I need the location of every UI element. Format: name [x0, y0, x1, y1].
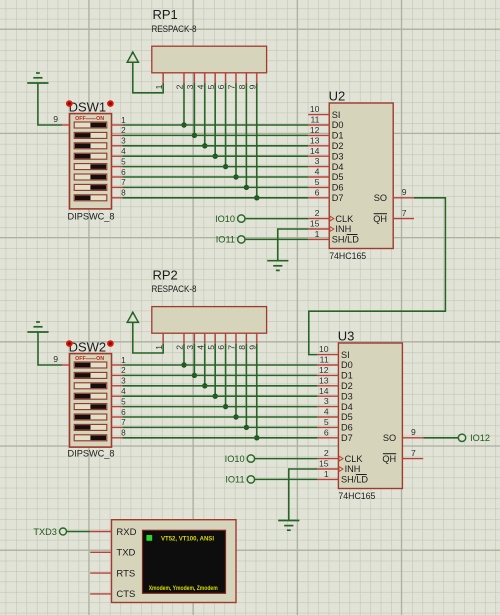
U2 pin 7 (QH)	[373, 208, 414, 224]
junction RP2 pin 5 / row 4	[213, 394, 218, 399]
terminal IO12 (from U3 SO)	[458, 433, 490, 443]
svg-text:15: 15	[310, 219, 320, 229]
ground at DSW2 common	[27, 322, 48, 332]
svg-text:8: 8	[237, 345, 247, 350]
DSW1 pin 5 stub	[112, 157, 127, 166]
svg-text:5: 5	[315, 177, 320, 187]
virtual terminal pin TXD	[90, 548, 135, 559]
svg-text:14: 14	[310, 146, 320, 156]
junction RP2 pin 2 / row 1	[181, 362, 186, 367]
U3 pin 11 (D0)	[317, 355, 352, 371]
svg-text:13: 13	[319, 375, 329, 385]
svg-text:RP2: RP2	[153, 267, 178, 282]
U2 pin 5 (D6)	[308, 177, 343, 193]
wire DSW1 pin 7 to U2 D6	[122, 186, 308, 188]
svg-text:QH: QH	[373, 214, 387, 224]
svg-text:8: 8	[121, 189, 126, 198]
wire RP1 pin 7 down to bus row 6	[235, 83, 237, 177]
U2 pin 1 (SH/LD)	[308, 229, 359, 245]
svg-text:IO11: IO11	[225, 475, 244, 485]
svg-text:9: 9	[53, 354, 58, 364]
wire U3 INH to ground	[289, 469, 318, 521]
U2 value label 74HC165	[329, 251, 366, 261]
svg-text:4: 4	[195, 84, 205, 89]
svg-text:1: 1	[121, 356, 126, 365]
U2 pin 14 (D3)	[308, 146, 343, 162]
svg-text:7: 7	[121, 418, 126, 427]
U2 pin 6 (D7)	[308, 187, 343, 203]
DSW1 value label DIPSWC_8	[68, 211, 115, 221]
svg-text:QH: QH	[382, 454, 396, 464]
svg-text:RTS: RTS	[116, 568, 135, 579]
DSW2 pin 5 stub	[112, 397, 127, 406]
svg-text:IO10: IO10	[225, 454, 245, 464]
RP2 pin 3 number	[185, 345, 195, 350]
svg-text:VT52, VT100, ANSI: VT52, VT100, ANSI	[161, 535, 214, 542]
svg-text:RXD: RXD	[116, 527, 136, 538]
DSW2 pin 7 stub	[112, 418, 127, 427]
svg-text:3: 3	[185, 84, 195, 89]
RP1 pin 3 number	[185, 84, 195, 89]
svg-text:7: 7	[121, 178, 126, 187]
junction RP2 pin 8 / row 7	[244, 425, 249, 430]
DSW2 switch 2 (OFF)	[74, 372, 107, 378]
svg-text:6: 6	[216, 84, 226, 89]
svg-text:4: 4	[195, 345, 205, 350]
svg-text:74HC165: 74HC165	[338, 491, 375, 501]
svg-text:2: 2	[315, 208, 320, 218]
wire RP2 pin 1 to power terminal	[133, 322, 163, 353]
virtual terminal pin RTS	[90, 568, 135, 579]
terminal screen text VT52, VT100, ANSI	[161, 535, 214, 542]
RP2 pin 5 number	[206, 345, 216, 350]
svg-text:1: 1	[154, 84, 164, 89]
svg-text:1: 1	[324, 469, 329, 479]
DSW2 value label DIPSWC_8	[68, 449, 115, 459]
svg-text:IO10: IO10	[215, 214, 235, 224]
U2 pin 10 (SI)	[308, 104, 340, 120]
ground below U3	[278, 521, 299, 531]
wire DSW1 pin 4 to U2 D3	[122, 155, 308, 157]
svg-text:7: 7	[227, 345, 237, 350]
U3 pin 2 (CLK)	[317, 448, 363, 464]
svg-text:2: 2	[121, 126, 126, 135]
DSW1 pin 3 stub	[112, 137, 127, 146]
wire U2 SO to U3 SI	[309, 198, 446, 355]
RP1 pin 8 number	[237, 84, 247, 89]
svg-text:D4: D4	[341, 402, 353, 412]
svg-text:DSW2: DSW2	[69, 339, 107, 354]
terminal screen text Xmodem, Ymodem, Zmodem	[149, 585, 218, 592]
DSW1 origin marker right	[107, 100, 114, 107]
RP1 pin 2 number	[175, 84, 185, 89]
U2 reference label	[329, 89, 346, 104]
svg-text:D5: D5	[341, 412, 353, 422]
svg-text:DIPSWC_8: DIPSWC_8	[68, 211, 115, 221]
svg-text:6: 6	[324, 427, 329, 437]
svg-text:D1: D1	[341, 371, 353, 381]
svg-text:1: 1	[154, 345, 164, 350]
svg-text:14: 14	[319, 386, 329, 396]
svg-text:D5: D5	[332, 172, 344, 182]
wire U3 SO to IO12	[423, 437, 458, 439]
svg-text:RP1: RP1	[153, 7, 178, 22]
svg-text:4: 4	[315, 167, 320, 177]
svg-text:SH/LD: SH/LD	[332, 235, 359, 245]
wire DSW2 pin 7 to U3 D6	[122, 426, 317, 428]
wire RP1 pin 3 down to bus row 2	[193, 83, 195, 135]
U2 pin 4 (D5)	[308, 167, 343, 183]
wire RP2 pin 9 down to bus row 8	[256, 344, 258, 438]
U2 pin 15 (INH)	[308, 219, 351, 235]
wire DSW2 pin 4 to U3 D3	[122, 395, 317, 397]
DSW2 switch 8 (ON)	[74, 435, 107, 441]
svg-text:5: 5	[206, 84, 216, 89]
wire RP1 pin 1 to power terminal	[133, 62, 163, 93]
svg-text:OFF: OFF	[75, 356, 86, 362]
DSW2 switch 7 (OFF)	[74, 424, 107, 430]
svg-text:D3: D3	[341, 391, 353, 401]
svg-text:2: 2	[121, 366, 126, 375]
RP2 pin 7 number	[227, 345, 237, 350]
wire DSW2 pin 5 to U3 D4	[122, 406, 317, 408]
wire DSW2 pin 3 to U3 D2	[122, 385, 317, 387]
wire RP2 pin 3 down to bus row 2	[193, 344, 195, 376]
U3 pin 9 (SO)	[383, 427, 423, 443]
svg-text:D2: D2	[332, 141, 344, 151]
DIP switch DSW1 (DIPSWC_8)	[70, 114, 112, 209]
svg-text:D6: D6	[341, 423, 353, 433]
U3 value label 74HC165	[338, 491, 375, 501]
U3 pin 12 (D1)	[317, 365, 352, 381]
svg-text:1: 1	[315, 229, 320, 239]
svg-text:1: 1	[121, 116, 126, 125]
DSW2 pin 2 stub	[112, 366, 127, 375]
svg-text:9: 9	[411, 427, 416, 437]
svg-text:12: 12	[319, 365, 329, 375]
wire RP2 pin 6 down to bus row 5	[225, 344, 227, 407]
U3 pin 7 (QH)	[382, 448, 423, 464]
wire IO10 to U2 CLK	[245, 218, 308, 220]
svg-text:DSW1: DSW1	[69, 99, 107, 114]
DSW1 pin 7 stub	[112, 178, 127, 187]
svg-text:SI: SI	[332, 110, 341, 120]
RP1 pin 9 number	[247, 84, 257, 89]
svg-text:9: 9	[247, 345, 257, 350]
RP2 pin 9 number	[247, 345, 257, 350]
wire U2 INH to ground	[278, 229, 308, 261]
svg-text:9: 9	[402, 187, 407, 197]
virtual terminal body	[112, 520, 237, 603]
resistor pack RP2 (RESPACK-8)	[152, 307, 267, 344]
U2 pin 2 (CLK)	[308, 208, 354, 224]
wire RP2 pin 8 down to bus row 7	[245, 344, 247, 428]
ground at DSW1 common	[27, 73, 48, 83]
DSW2 origin marker left	[66, 340, 73, 347]
svg-text:IO12: IO12	[470, 433, 490, 443]
svg-text:RESPACK-8: RESPACK-8	[152, 284, 197, 294]
wire DSW1 pin 8 to U2 D7	[122, 197, 308, 199]
svg-text:3: 3	[121, 137, 126, 146]
DSW1 pin 1 stub	[112, 116, 127, 125]
svg-text:15: 15	[319, 459, 329, 469]
U2 pin 3 (D4)	[308, 156, 343, 172]
svg-text:TXD3: TXD3	[33, 527, 57, 537]
svg-text:CTS: CTS	[116, 589, 135, 600]
U3 pin 3 (D4)	[317, 396, 352, 412]
DSW2 pin 9 stub (common)	[53, 354, 69, 365]
junction RP1 pin 3 / row 2	[192, 133, 197, 138]
svg-text:D6: D6	[332, 183, 344, 193]
svg-text:9: 9	[247, 84, 257, 89]
U3 pin 6 (D7)	[317, 427, 352, 443]
svg-text:3: 3	[324, 396, 329, 406]
svg-text:3: 3	[185, 345, 195, 350]
svg-text:DIPSWC_8: DIPSWC_8	[68, 449, 115, 459]
wire IO11 to U3 SH/LD	[255, 478, 318, 480]
DSW1 switch 7 (ON)	[74, 184, 107, 190]
U2 pin 11 (D0)	[308, 115, 343, 131]
svg-text:3: 3	[121, 377, 126, 386]
svg-text:Xmodem, Ymodem, Zmodem: Xmodem, Ymodem, Zmodem	[149, 585, 218, 592]
svg-text:11: 11	[310, 115, 319, 125]
svg-text:5: 5	[121, 157, 126, 166]
wire RP2 pin 4 down to bus row 3	[204, 344, 206, 386]
power terminal VCC for RP2	[127, 312, 138, 322]
RP1 pin 1 number	[154, 84, 164, 89]
DIP switch DSW2 (DIPSWC_8)	[70, 354, 112, 448]
junction RP2 pin 3 / row 2	[192, 373, 197, 378]
DSW2 pin 4 stub	[112, 387, 127, 396]
RP1 value label RESPACK-8	[152, 24, 197, 34]
DSW2 reference label	[69, 339, 107, 354]
svg-text:D2: D2	[341, 381, 353, 391]
svg-text:7: 7	[411, 448, 416, 458]
svg-text:ON: ON	[96, 116, 104, 122]
svg-text:OFF: OFF	[75, 116, 86, 122]
RP1 pin 7 number	[227, 84, 237, 89]
DSW1 pin 2 stub	[112, 126, 127, 135]
wire DSW1 pin 2 to U2 D1	[122, 134, 308, 136]
DSW1 switch 6 (ON)	[74, 174, 107, 180]
virtual terminal pin CTS	[90, 589, 135, 600]
svg-text:5: 5	[121, 397, 126, 406]
wire DSW2 pin 6 to U3 D5	[122, 416, 317, 418]
svg-text:8: 8	[121, 429, 126, 438]
RP1 pin 4 number	[195, 84, 205, 89]
U3 pin 10 (SI)	[317, 344, 349, 360]
wire DSW1 pin 6 to U2 D5	[122, 176, 308, 178]
svg-text:CLK: CLK	[335, 214, 354, 224]
DSW1 switch 2 (OFF)	[74, 132, 107, 138]
terminal IO11 (to U3 SH/LD)	[225, 475, 254, 485]
DSW1 switch 1 (ON)	[74, 122, 107, 128]
DSW1 pin 6 stub	[112, 168, 127, 177]
svg-text:D0: D0	[332, 120, 344, 130]
svg-text:5: 5	[206, 345, 216, 350]
DSW1 switch 3 (OFF)	[74, 143, 107, 149]
wire IO11 to U2 SH/LD	[245, 238, 308, 240]
RP2 reference label	[153, 267, 178, 282]
svg-text:D3: D3	[332, 151, 344, 161]
DSW2 origin marker right	[107, 340, 114, 347]
U3 pin 14 (D3)	[317, 386, 352, 402]
IC U3 74HC165 body	[338, 343, 402, 489]
svg-text:4: 4	[121, 387, 126, 396]
DSW1 switch 4 (OFF)	[74, 153, 107, 159]
wire DSW1 pin 3 to U2 D2	[122, 145, 308, 147]
U3 pin 1 (SH/LD)	[317, 469, 368, 485]
junction RP1 pin 2 / row 1	[181, 122, 186, 127]
svg-text:6: 6	[121, 168, 126, 177]
terminal status indicator	[146, 535, 152, 541]
junction RP2 pin 6 / row 5	[223, 404, 228, 409]
svg-text:D7: D7	[341, 433, 353, 443]
svg-text:ON: ON	[96, 356, 104, 362]
U2 pin 13 (D2)	[308, 135, 343, 151]
svg-text:2: 2	[175, 84, 185, 89]
RP1 pin 6 number	[216, 84, 226, 89]
RP2 pin 8 number	[237, 345, 247, 350]
wire DSW2 pin 1 to U3 D0	[122, 364, 317, 366]
ground below U2	[267, 261, 288, 271]
RP2 value label RESPACK-8	[152, 284, 197, 294]
svg-text:2: 2	[175, 345, 185, 350]
wire IO10 to U3 CLK	[255, 458, 318, 460]
wire DSW2 pin 8 to U3 D7	[122, 437, 317, 439]
DSW2 pin 6 stub	[112, 408, 127, 417]
wire RP1 pin 2 down to bus row 1	[183, 83, 185, 125]
svg-text:11: 11	[320, 355, 329, 365]
svg-text:4: 4	[324, 407, 329, 417]
svg-text:D0: D0	[341, 360, 353, 370]
svg-text:5: 5	[324, 417, 329, 427]
virtual terminal screen	[143, 530, 226, 593]
svg-text:6: 6	[216, 345, 226, 350]
svg-text:10: 10	[310, 104, 320, 114]
wire DSW1 pin 5 to U2 D4	[122, 166, 308, 168]
U2 pin 9 (SO)	[374, 187, 414, 203]
svg-text:SI: SI	[341, 350, 350, 360]
junction RP2 pin 4 / row 3	[202, 383, 207, 388]
svg-text:6: 6	[121, 408, 126, 417]
DSW1 switch 8 (OFF)	[74, 195, 107, 201]
svg-text:3: 3	[315, 156, 320, 166]
svg-text:7: 7	[227, 84, 237, 89]
wire RP1 pin 8 down to bus row 7	[245, 83, 247, 187]
RP2 pin 4 number	[195, 345, 205, 350]
svg-text:RESPACK-8: RESPACK-8	[152, 24, 197, 34]
wire TXD3 to terminal RXD	[67, 531, 91, 533]
terminal IO10 (to U2 CLK)	[215, 214, 245, 224]
wire DSW1 pin 1 to U2 D0	[122, 124, 308, 126]
DSW2 pin 1 stub	[112, 356, 127, 365]
U3 pin 5 (D6)	[317, 417, 352, 433]
DSW2 pin 8 stub	[112, 429, 127, 438]
svg-text:D4: D4	[332, 162, 344, 172]
wire RP1 pin 6 down to bus row 5	[225, 83, 227, 166]
svg-text:U2: U2	[329, 89, 346, 104]
svg-text:IO11: IO11	[216, 235, 235, 245]
DSW1 origin marker left	[66, 100, 73, 107]
svg-text:12: 12	[310, 125, 320, 135]
svg-text:INH: INH	[335, 224, 351, 234]
svg-text:2: 2	[324, 448, 329, 458]
svg-text:SO: SO	[383, 433, 396, 443]
resistor pack RP1 (RESPACK-8)	[152, 46, 267, 83]
DSW1 pin 9 stub (common)	[53, 114, 69, 125]
DSW2 switch 3 (ON)	[74, 383, 107, 389]
RP2 pin 2 number	[175, 345, 185, 350]
wire RP1 pin 9 down to bus row 8	[256, 83, 258, 198]
DSW2 switch 1 (OFF)	[74, 362, 107, 368]
DSW2 pin 3 stub	[112, 377, 127, 386]
svg-text:74HC165: 74HC165	[329, 251, 366, 261]
virtual terminal pin RXD	[90, 527, 136, 538]
terminal IO10 (to U3 CLK)	[225, 454, 255, 464]
junction RP1 pin 9 / row 8	[254, 195, 259, 200]
svg-text:SH/LD: SH/LD	[341, 475, 368, 485]
wire ground to DSW1 pin 9	[38, 83, 62, 125]
U3 pin 15 (INH)	[317, 459, 360, 475]
RP1 reference label	[153, 7, 178, 22]
U3 pin 4 (D5)	[317, 407, 352, 423]
DSW1 switch 5 (ON)	[74, 164, 107, 170]
svg-text:10: 10	[319, 344, 329, 354]
svg-text:13: 13	[310, 135, 320, 145]
svg-text:U3: U3	[338, 329, 355, 344]
junction RP1 pin 7 / row 6	[233, 174, 238, 179]
svg-text:INH: INH	[345, 464, 361, 474]
IC U2 74HC165 body	[329, 103, 393, 249]
junction RP2 pin 7 / row 6	[233, 414, 238, 419]
RP2 pin 1 number	[154, 345, 164, 350]
DSW2 switch 5 (ON)	[74, 404, 107, 410]
wire RP2 pin 5 down to bus row 4	[214, 344, 216, 396]
svg-text:CLK: CLK	[345, 454, 364, 464]
svg-text:D7: D7	[332, 193, 344, 203]
wire RP1 pin 5 down to bus row 4	[214, 83, 216, 156]
wire DSW2 pin 2 to U3 D1	[122, 374, 317, 376]
svg-text:SO: SO	[374, 193, 387, 203]
junction RP2 pin 9 / row 8	[254, 435, 259, 440]
junction RP1 pin 4 / row 3	[202, 143, 207, 148]
U2 pin 12 (D1)	[308, 125, 343, 141]
svg-text:D1: D1	[332, 131, 344, 141]
wire RP1 pin 4 down to bus row 3	[204, 83, 206, 146]
DSW1 pin 8 stub	[112, 189, 127, 198]
svg-text:TXD: TXD	[116, 548, 135, 559]
DSW2 switch 6 (OFF)	[74, 414, 107, 420]
terminal TXD3	[33, 527, 66, 537]
svg-text:8: 8	[237, 84, 247, 89]
DSW1 pin 4 stub	[112, 147, 127, 156]
DSW1 reference label	[69, 99, 107, 114]
svg-text:7: 7	[402, 208, 407, 218]
U3 reference label	[338, 329, 355, 344]
junction RP1 pin 6 / row 5	[223, 164, 228, 169]
svg-text:6: 6	[315, 187, 320, 197]
wire ground to DSW2 pin 9	[38, 332, 62, 365]
svg-text:9: 9	[53, 114, 58, 124]
RP1 pin 5 number	[206, 84, 216, 89]
U3 pin 13 (D2)	[317, 375, 352, 391]
power terminal VCC for RP1	[127, 52, 138, 62]
svg-text:4: 4	[121, 147, 126, 156]
terminal IO11 (to U2 SH/LD)	[216, 235, 245, 245]
junction RP1 pin 5 / row 4	[213, 154, 218, 159]
junction RP1 pin 8 / row 7	[244, 185, 249, 190]
